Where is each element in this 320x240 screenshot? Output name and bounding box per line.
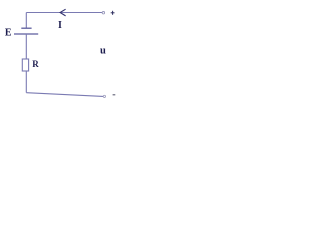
current arrow on top wire (points left) (60, 9, 66, 16)
wire: battery bottom plate to resistor top (25, 34, 27, 59)
wire: top horizontal from left corner to right terminal (26, 12, 103, 14)
resistor R body (22, 59, 28, 71)
label + (top terminal polarity) (111, 11, 115, 15)
svg-text:I: I (58, 20, 62, 31)
svg-text:u: u (100, 45, 106, 56)
battery E: long bottom plate (14, 33, 38, 35)
svg-text:E: E (5, 28, 12, 39)
wire: left vertical from top corner to battery top plate (25, 13, 27, 29)
terminal: bottom-right open circle (103, 95, 105, 97)
wire: resistor bottom to bottom-left corner (25, 71, 27, 93)
terminal: top-right open circle (102, 12, 104, 14)
wire: bottom horizontal (slightly sloped) to right terminal (26, 93, 103, 97)
label - (bottom terminal polarity) (113, 94, 116, 96)
svg-text:R: R (32, 59, 39, 69)
battery E: short top plate (21, 27, 31, 29)
